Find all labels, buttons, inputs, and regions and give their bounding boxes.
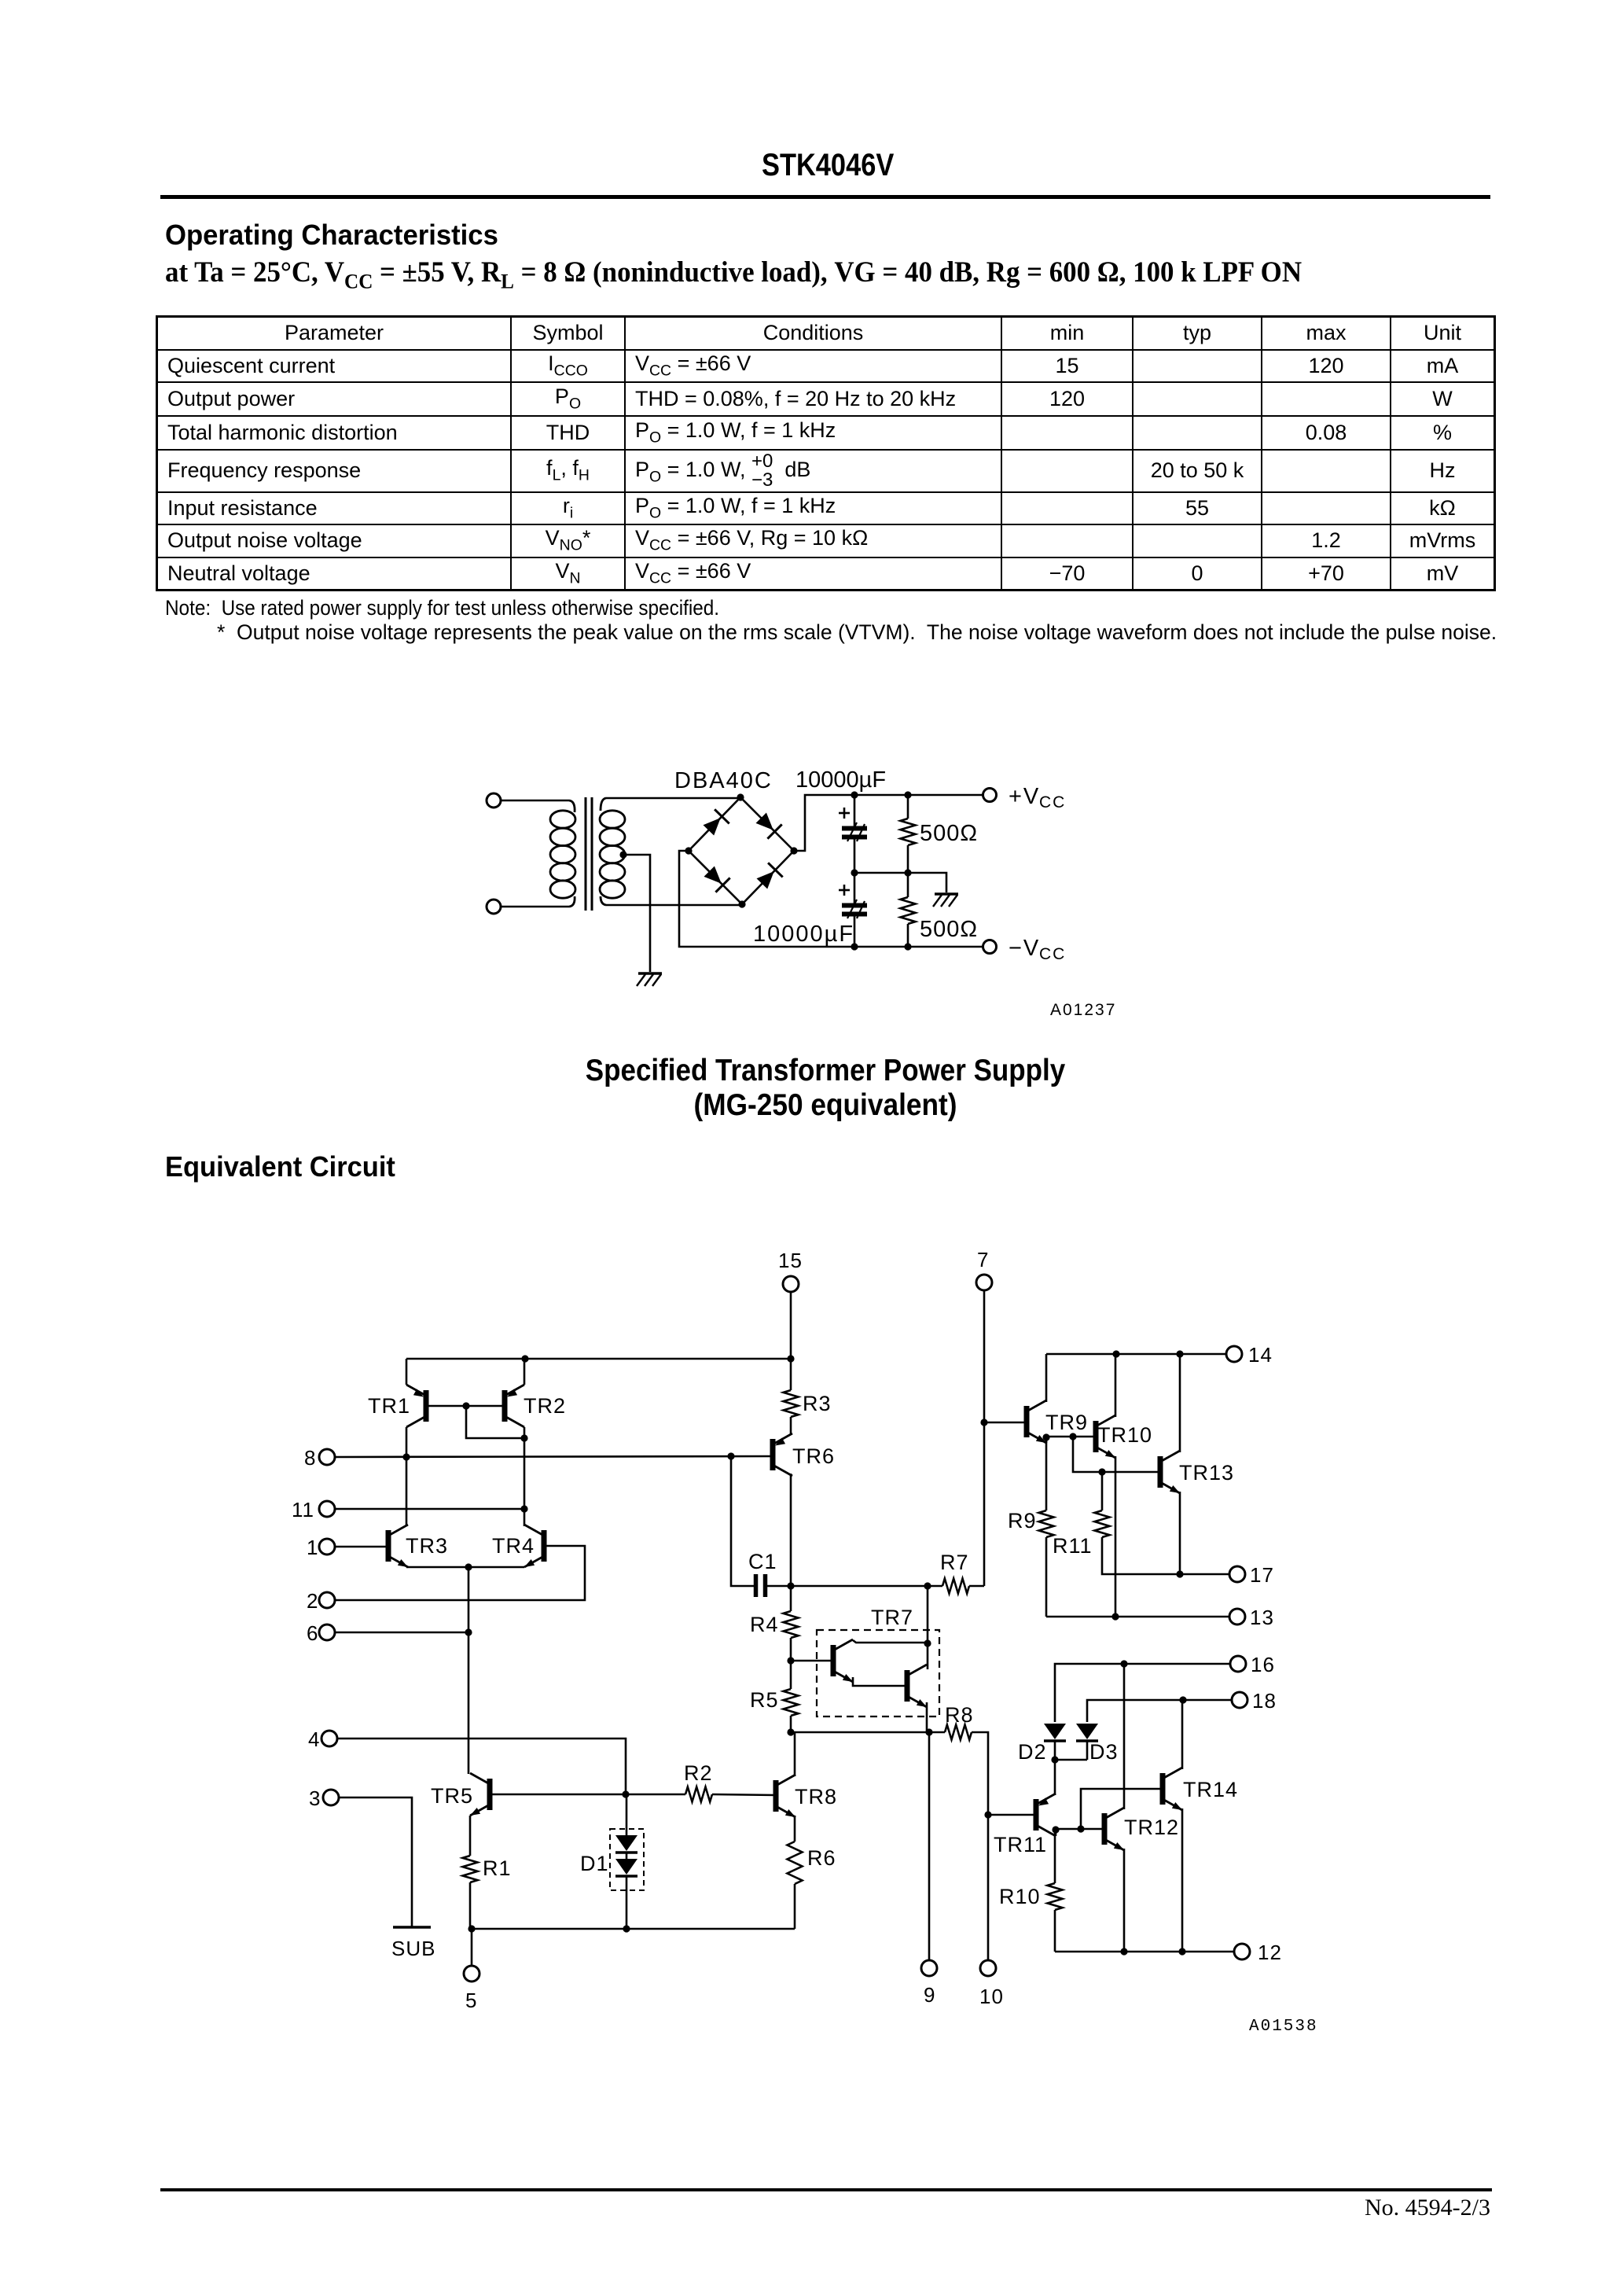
svg-text:+V: +V <box>1009 784 1040 809</box>
diode D1 (double) <box>580 1794 644 1929</box>
svg-text:9: 9 <box>924 1983 935 2007</box>
wire R4 column <box>790 1586 792 1611</box>
pin 7 <box>976 1248 992 1290</box>
wire tail current source vertical <box>468 1567 470 1774</box>
svg-text:R3: R3 <box>803 1392 832 1415</box>
transistor TR4 (NPN) <box>492 1525 544 1567</box>
svg-text:1: 1 <box>307 1536 318 1559</box>
pin 13 <box>1229 1606 1274 1629</box>
wire pin 11 <box>336 1508 525 1510</box>
wire C1 left lead from pin8 row <box>731 1456 754 1586</box>
svg-text:CC: CC <box>1039 793 1066 811</box>
page header title <box>762 148 894 183</box>
svg-text:TR5: TR5 <box>431 1784 473 1808</box>
transformer T1 primary winding <box>550 800 575 907</box>
wire R10 to pin 12 rail <box>1054 1910 1056 1952</box>
wire TR3 collector diag join <box>406 1525 408 1527</box>
caption line 1 <box>536 1054 1115 1088</box>
mid rail wire <box>851 869 946 892</box>
wire TR8 collector up to R5 node <box>794 1732 796 1776</box>
svg-text:TR9: TR9 <box>1045 1411 1088 1434</box>
svg-text:TR6: TR6 <box>792 1444 835 1468</box>
TR7 dashed box <box>817 1606 939 1716</box>
svg-text:R7: R7 <box>940 1551 969 1574</box>
svg-text:6: 6 <box>307 1621 318 1645</box>
wire TR9 collector up to right rail <box>1045 1354 1048 1402</box>
svg-text:18: 18 <box>1252 1689 1277 1713</box>
-VCC terminal <box>983 936 1067 963</box>
wire TR6 emitter down to C1 node <box>790 1474 792 1586</box>
svg-text:4: 4 <box>308 1728 320 1751</box>
wire TR13 collector up to rail <box>1179 1354 1181 1452</box>
wire pin 3 to SUB <box>340 1797 413 1927</box>
right top rail <box>1046 1350 1226 1357</box>
+VCC terminal <box>983 784 1067 811</box>
pin 4 <box>308 1728 337 1751</box>
wire C1/R7 row <box>787 1582 942 1589</box>
note line 1 <box>165 596 719 620</box>
transistor TR2 (PNP) <box>505 1359 566 1427</box>
wire R4 to TR7 base node <box>787 1638 794 1689</box>
wire TR12 collector up to pin16 row <box>1123 1664 1126 1809</box>
svg-text:C1: C1 <box>748 1550 777 1573</box>
pin 18 <box>1232 1689 1277 1713</box>
svg-text:CC: CC <box>1039 945 1066 963</box>
svg-text:TR12: TR12 <box>1124 1816 1179 1839</box>
wire TR4 base loop to pin 2 <box>336 1546 586 1600</box>
label 10000uF top <box>795 767 886 793</box>
pin 11 <box>292 1498 335 1521</box>
svg-text:14: 14 <box>1248 1343 1273 1367</box>
wire TR1 collector down / pin8 node / to TR3 collector <box>402 1427 410 1526</box>
wire TR10 base node down to TR13 base row <box>1073 1437 1160 1476</box>
pin 2 <box>307 1589 335 1613</box>
wire center tap to ground <box>623 855 650 972</box>
svg-text:TR3: TR3 <box>406 1534 448 1558</box>
transistor TR13 (NPN) <box>1160 1451 1234 1493</box>
label A01538 <box>1249 2018 1318 2036</box>
node capacitor top on +rail <box>851 791 858 798</box>
label A01237 <box>1050 1001 1116 1019</box>
wire TR14 base loop <box>1081 1789 1163 1829</box>
wire pin 7 vertical <box>980 1291 987 1587</box>
svg-text:TR1: TR1 <box>368 1394 410 1418</box>
wire TR9 emitter node to TR10 base <box>1042 1433 1096 1443</box>
svg-text:TR13: TR13 <box>1179 1461 1234 1485</box>
center tap node <box>619 851 626 858</box>
wire TR14 emitter down to pin12 rail <box>1181 1808 1184 1952</box>
svg-text:TR7: TR7 <box>871 1606 913 1629</box>
wire TR5 base row / R2 left <box>490 1790 685 1797</box>
transistor TR9 (NPN) <box>1027 1400 1088 1443</box>
capacitor 10000uF top (electrolytic) <box>839 795 867 873</box>
wire secondary top to bridge <box>606 797 740 800</box>
svg-text:500Ω: 500Ω <box>920 917 978 942</box>
svg-text:R2: R2 <box>684 1761 713 1785</box>
wire TR8 emitter to R6 <box>794 1816 796 1842</box>
resistor R10 <box>999 1831 1063 1910</box>
wire pin 1 to TR3 base <box>336 1546 389 1548</box>
svg-text:R11: R11 <box>1053 1534 1093 1558</box>
transistor TR14 (NPN) <box>1163 1768 1238 1810</box>
wire R5 to bottom node row <box>787 1716 794 1736</box>
wire R9 to bottom right rail <box>1045 1537 1048 1617</box>
svg-text:R1: R1 <box>483 1856 512 1880</box>
svg-text:17: 17 <box>1250 1563 1274 1587</box>
svg-text:A01237: A01237 <box>1050 1001 1116 1019</box>
wire TR12 emitter down to pin12 rail <box>1123 1849 1126 1952</box>
caption line 2 <box>534 1088 1116 1123</box>
wire TR14 collector up to pin18 row <box>1181 1700 1184 1769</box>
wire to pin 5 <box>471 1929 473 1965</box>
nodes on -rail <box>851 943 911 950</box>
wire TR11 base <box>988 1814 1036 1816</box>
bottom right rail to pin 13 <box>1046 1616 1229 1618</box>
resistor R4 <box>750 1611 799 1638</box>
wire R11 down to pin 17 row <box>1102 1537 1229 1574</box>
wire bridge - output to -VCC rail <box>679 851 983 947</box>
wire pin 6 <box>336 1628 472 1636</box>
wire TR2 collector down to TR4 collector <box>520 1427 527 1526</box>
capacitor 10000uF bottom (electrolytic) <box>839 873 867 947</box>
bridge corner nodes <box>685 793 797 907</box>
wire TR1 base to TR2 base tie-down <box>426 1402 528 1441</box>
note line 2 <box>217 620 1497 645</box>
section heading Operating Characteristics <box>165 219 498 252</box>
bottom-left rail <box>468 1925 795 1932</box>
resistor R11 <box>1053 1472 1110 1558</box>
resistor R3 <box>784 1390 832 1417</box>
svg-text:−V: −V <box>1009 936 1040 961</box>
svg-text:8: 8 <box>304 1446 316 1470</box>
svg-text:10000µF: 10000µF <box>753 922 854 947</box>
wire TR13 emitter down to pin17 row <box>1176 1492 1183 1578</box>
footer rule <box>160 2188 1492 2191</box>
transistor TR3 (NPN) <box>388 1525 448 1567</box>
svg-text:D3: D3 <box>1089 1740 1119 1764</box>
pin 16 <box>1230 1653 1275 1676</box>
transistor TR5 (NPN) <box>431 1773 490 1816</box>
transformer T1 core <box>586 797 592 911</box>
header rule <box>160 195 1490 199</box>
wire R1 to bottom rail <box>469 1882 472 1929</box>
diode bridge lower-right <box>757 863 783 889</box>
wire pin 14 stub <box>1180 1353 1226 1355</box>
wire TR3/TR4 emitter rail <box>406 1563 524 1570</box>
svg-text:R8: R8 <box>945 1703 974 1727</box>
pin 10 <box>979 1960 1004 2008</box>
AC input terminal top <box>487 793 569 808</box>
svg-text:R6: R6 <box>807 1846 836 1870</box>
resistor R1 <box>463 1856 512 1882</box>
svg-text:R4: R4 <box>750 1613 779 1636</box>
wire R2 to TR8 base <box>712 1794 776 1795</box>
wire R3 to TR6 collector <box>790 1417 792 1434</box>
resistor R7 <box>940 1551 969 1594</box>
wire TR5 emitter to R1 <box>469 1816 472 1856</box>
transistor TR12 (NPN) <box>1104 1808 1179 1850</box>
transistor TR6 (PNP) <box>773 1433 835 1476</box>
svg-text:R9: R9 <box>1008 1509 1037 1533</box>
svg-text:SUB: SUB <box>391 1937 435 1960</box>
label DBA40C <box>674 768 773 793</box>
bridge rectifier DBA40C diamond <box>689 797 794 904</box>
capacitor C1 <box>748 1550 791 1597</box>
svg-text:TR14: TR14 <box>1183 1778 1238 1801</box>
svg-text:12: 12 <box>1258 1941 1282 1964</box>
pin 9 <box>921 1960 937 2007</box>
resistor R9 <box>1008 1509 1054 1537</box>
svg-text:TR8: TR8 <box>795 1785 837 1808</box>
wire TR7 collectors vertical <box>927 1586 929 1669</box>
svg-text:13: 13 <box>1250 1606 1274 1629</box>
svg-text:16: 16 <box>1251 1653 1275 1676</box>
resistor 500ohm top <box>901 795 916 873</box>
wire pin 16 row <box>1055 1660 1230 1722</box>
wire TR11 bottom junction row <box>1052 1825 1104 1836</box>
diode D2 <box>1018 1724 1066 1764</box>
wire pin 8 row <box>336 1452 773 1459</box>
transistor TR8 (NPN) <box>776 1775 837 1817</box>
wire TR10 collector up to rail <box>1115 1354 1117 1417</box>
ground (mid rail) <box>933 894 958 907</box>
transistor TR7a (NPN) <box>833 1639 853 1682</box>
wire TR7a collector to common collector node <box>853 1639 931 1647</box>
pin 6 <box>307 1621 335 1645</box>
svg-text:11: 11 <box>292 1498 314 1521</box>
wire R6 to bottom rail <box>794 1884 796 1929</box>
transistor TR11 (PNP) <box>994 1794 1056 1856</box>
wire D2/D3 node to TR11 emitter <box>1051 1756 1058 1795</box>
svg-text:TR2: TR2 <box>524 1394 566 1418</box>
power supply schematic <box>440 751 1148 1034</box>
svg-text:5: 5 <box>465 1989 477 2012</box>
wire bridge + output to +VCC rail <box>794 795 983 851</box>
svg-text:R10: R10 <box>999 1885 1041 1908</box>
wire TR7a emitter to TR7b base <box>853 1677 907 1686</box>
wire pin15 to rail and R3 <box>787 1293 794 1391</box>
pin 14 <box>1226 1343 1273 1367</box>
transistor TR10 (NPN) <box>1096 1415 1152 1458</box>
wire R7 right to pin7 vertical <box>969 1585 984 1588</box>
svg-text:R5: R5 <box>750 1688 779 1712</box>
svg-text:7: 7 <box>977 1248 989 1271</box>
diode bridge lower-left <box>704 867 730 892</box>
svg-text:15: 15 <box>778 1249 803 1272</box>
svg-text:10000µF: 10000µF <box>795 767 886 793</box>
pin 15 <box>778 1249 803 1292</box>
pin 12 <box>1234 1941 1282 1964</box>
equivalent circuit schematic <box>283 1242 1321 2052</box>
diode bridge upper-right <box>756 813 782 839</box>
pin 8 <box>304 1446 335 1470</box>
pin 12 rail <box>1055 1948 1234 1955</box>
transistor TR7b (NPN) <box>907 1665 927 1707</box>
wire pin 9 vertical <box>928 1732 931 1960</box>
diode bridge upper-left <box>704 809 729 835</box>
resistor R2 <box>684 1761 713 1802</box>
wire pin 18 row <box>1087 1696 1232 1722</box>
wire secondary bottom to bridge <box>606 904 742 907</box>
SUB substrate symbol <box>391 1927 435 1960</box>
ground (center tap) <box>637 973 662 986</box>
footer page number <box>1255 2195 1490 2221</box>
wire top-left rail <box>406 1355 791 1362</box>
svg-text:DBA40C: DBA40C <box>674 768 773 793</box>
wire pin7 node to TR9 base <box>984 1422 1027 1424</box>
svg-text:500Ω: 500Ω <box>920 821 978 846</box>
transistor TR1 (PNP) <box>368 1359 426 1427</box>
label 500ohm top <box>920 821 978 846</box>
resistor R8 <box>945 1703 974 1740</box>
AC input terminal bottom <box>487 900 569 914</box>
wire pin 4 row <box>338 1739 626 1794</box>
svg-text:2: 2 <box>307 1589 318 1613</box>
svg-text:D1: D1 <box>580 1852 609 1875</box>
pin 17 <box>1229 1563 1274 1587</box>
diode D3 <box>1055 1724 1119 1764</box>
svg-text:TR4: TR4 <box>492 1534 535 1558</box>
svg-text:10: 10 <box>979 1985 1004 2008</box>
pin 3 <box>309 1786 339 1810</box>
svg-text:TR10: TR10 <box>1097 1423 1152 1447</box>
node resistor top on +rail <box>904 791 911 798</box>
label 10000uF bottom <box>753 922 854 947</box>
wire R8 right to pin10 vertical <box>972 1732 992 1960</box>
wire R5/R8 node row <box>791 1728 945 1735</box>
resistor R6 <box>788 1842 836 1884</box>
characteristics table <box>156 315 1496 591</box>
svg-text:TR11: TR11 <box>994 1833 1047 1856</box>
conditions line <box>165 256 1302 293</box>
svg-text:3: 3 <box>309 1786 321 1810</box>
pin 5 <box>464 1966 479 2012</box>
section heading Equivalent Circuit <box>165 1150 395 1183</box>
svg-text:D2: D2 <box>1018 1740 1047 1764</box>
wire R9 column <box>1045 1438 1048 1510</box>
wire TR7b emitter down to node row <box>926 1702 928 1732</box>
resistor 500ohm bottom <box>901 873 916 947</box>
resistor R5 <box>750 1688 799 1716</box>
transformer T1 secondary winding <box>600 798 625 905</box>
pin 1 <box>307 1536 335 1559</box>
wire TR7 base lead <box>791 1660 833 1662</box>
label 500ohm bottom <box>920 917 978 942</box>
wire TR10 emitter down to rail 13 <box>1111 1456 1119 1621</box>
